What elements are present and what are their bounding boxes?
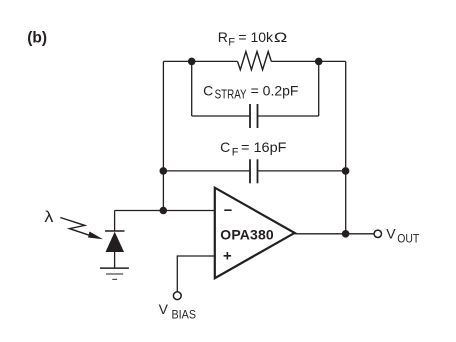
svg-text:= 0.2pF: = 0.2pF xyxy=(251,83,299,99)
svg-text:Ω: Ω xyxy=(274,29,287,45)
svg-text:OUT: OUT xyxy=(397,234,419,246)
svg-text:(b): (b) xyxy=(27,30,47,47)
svg-text:= 10k: = 10k xyxy=(238,29,274,45)
svg-text:F: F xyxy=(232,146,239,158)
svg-text:C: C xyxy=(220,139,230,155)
svg-text:OPA380: OPA380 xyxy=(220,226,274,242)
svg-text:V: V xyxy=(159,301,169,317)
svg-text:F: F xyxy=(228,36,235,48)
svg-text:V: V xyxy=(386,226,396,242)
svg-text:BIAS: BIAS xyxy=(172,310,197,322)
svg-text:R: R xyxy=(218,29,228,45)
svg-text:= 16pF: = 16pF xyxy=(241,139,287,155)
svg-text:C: C xyxy=(203,83,213,99)
svg-text:STRAY: STRAY xyxy=(215,88,248,102)
svg-text:λ: λ xyxy=(44,209,53,226)
